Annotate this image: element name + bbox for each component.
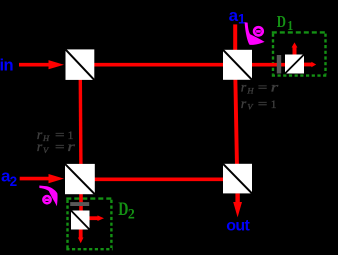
- label: rV = 1 (below BS2): [241, 97, 277, 112]
- detector D2 dashed box: [66, 199, 112, 250]
- polarizer bar in D1 (vertical): [277, 55, 281, 74]
- label: D1: [277, 13, 293, 33]
- svg-text:2: 2: [10, 174, 18, 189]
- small polarizing beam splitter in D1: [285, 55, 304, 74]
- rotation arrow top (theta at BS2): [245, 22, 265, 45]
- wire: D1 right stub arrow: [304, 62, 316, 68]
- wire: left rail BS1 to BS3: [78, 65, 82, 179]
- label: rH = r (below BS2): [241, 81, 279, 96]
- theta symbol bottom: [43, 196, 50, 203]
- wire: D2 right stub arrow: [90, 215, 105, 221]
- wire: a1 input drop line: [233, 24, 237, 65]
- svg-text:=: =: [258, 81, 268, 95]
- wire: bottom rail BS3 to BS4: [81, 178, 238, 182]
- svg-text:r: r: [37, 140, 43, 155]
- label: rV = r (above BS3): [37, 140, 76, 155]
- svg-text:H: H: [246, 85, 254, 95]
- svg-text:out: out: [226, 217, 250, 234]
- svg-text:1: 1: [287, 17, 293, 33]
- beam splitter BS2 (top-right): [223, 50, 252, 80]
- wire: right rail BS2 to BS4: [235, 65, 237, 179]
- svg-text:2: 2: [128, 206, 135, 222]
- wire: a2 input arrow: [20, 174, 64, 183]
- label: a2: [1, 167, 17, 189]
- beam splitter BS1 (top-left): [66, 49, 95, 80]
- beam splitter BS4 (bottom-right): [223, 164, 252, 194]
- label: a1: [229, 6, 246, 26]
- detector D1 dashed box: [272, 32, 327, 75]
- svg-text:r: r: [67, 140, 75, 155]
- svg-text:1: 1: [271, 99, 277, 111]
- theta symbol top: [254, 27, 263, 35]
- wire: top rail BS1 to BS2 and on into D1: [80, 63, 285, 67]
- beam splitter BS3 (bottom-left): [65, 164, 95, 194]
- label: D2: [118, 198, 134, 222]
- svg-text:=: =: [258, 97, 268, 111]
- wire: D1 up stub arrow: [292, 42, 298, 54]
- svg-text:in: in: [0, 57, 13, 75]
- rotation arrow bottom (theta at BS3): [39, 186, 57, 207]
- polarizer bar in D2 (horizontal): [70, 202, 89, 206]
- small polarizing beam splitter in D2: [71, 211, 90, 230]
- svg-text:D: D: [277, 13, 286, 31]
- svg-text:r: r: [241, 97, 247, 112]
- wire: in input arrow: [19, 60, 64, 69]
- svg-text:=: =: [55, 140, 65, 154]
- label: rH = 1 (above BS3): [37, 128, 74, 143]
- svg-text:r: r: [241, 81, 247, 96]
- svg-text:r: r: [271, 81, 279, 96]
- wire: D2 down stub arrow: [78, 230, 84, 244]
- svg-text:H: H: [42, 133, 50, 143]
- wire: out output arrow: [233, 194, 242, 218]
- wire: D2 drop beam BS3 into detector: [79, 179, 83, 219]
